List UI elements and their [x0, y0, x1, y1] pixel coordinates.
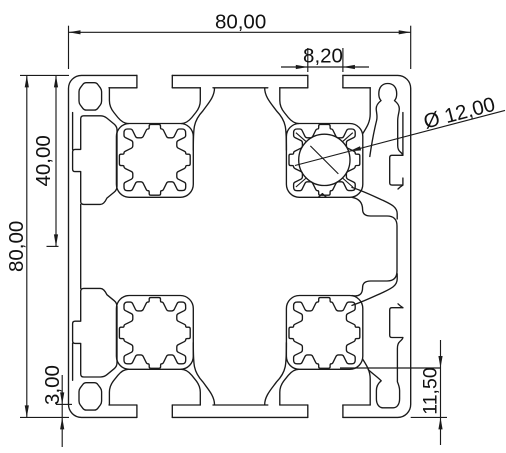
svg-text:8,20: 8,20: [303, 45, 343, 68]
svg-text:80,00: 80,00: [5, 221, 28, 272]
svg-text:11,50: 11,50: [420, 367, 442, 415]
svg-text:40,00: 40,00: [32, 135, 55, 186]
svg-text:Ø 12,00: Ø 12,00: [421, 93, 497, 134]
svg-text:80,00: 80,00: [215, 11, 266, 34]
svg-text:3,00: 3,00: [41, 365, 64, 405]
